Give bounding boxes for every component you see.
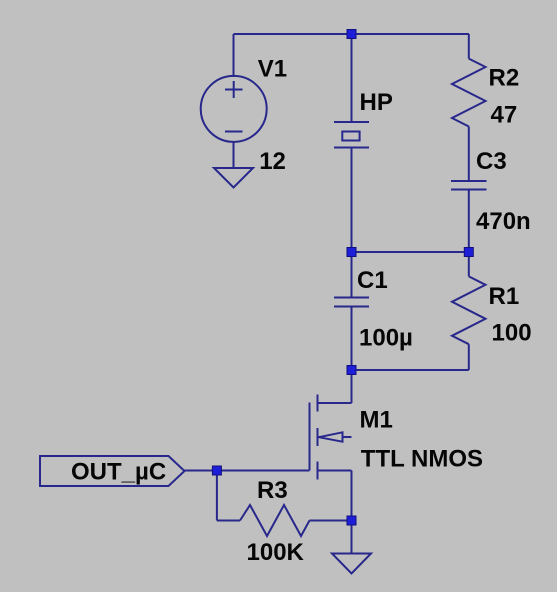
resistor R2: [452, 59, 486, 127]
wire HP bottom to node: [351, 148, 353, 253]
svg-text:HP: HP: [360, 89, 393, 116]
V1 plus sign: [225, 89, 243, 91]
svg-text:R3: R3: [257, 477, 288, 504]
svg-text:OUT_µC: OUT_µC: [71, 459, 166, 486]
svg-text:C1: C1: [357, 267, 388, 294]
svg-text:12: 12: [259, 148, 286, 175]
wire C1 top lead: [351, 252, 353, 298]
junction node source/R3/ground: [347, 516, 356, 525]
junction node HP/C1/mid rail: [347, 248, 356, 257]
svg-text:R2: R2: [489, 64, 520, 91]
wire V1 top lead: [233, 34, 235, 77]
wire top rail from V1 to R2: [234, 33, 470, 35]
voltage source V1 circle: [201, 76, 267, 142]
svg-text:100µ: 100µ: [359, 324, 413, 351]
wire flag to gate: [185, 470, 310, 472]
net flag OUT_µC outline: [40, 456, 185, 486]
wire R3 left lead: [217, 520, 240, 522]
speaker HP symbol: [334, 121, 369, 123]
transistor M1 NMOS: [310, 395, 352, 480]
svg-text:100K: 100K: [247, 539, 305, 566]
wire source: [351, 471, 353, 521]
svg-text:C3: C3: [476, 148, 507, 175]
svg-text:TTL NMOS: TTL NMOS: [361, 445, 483, 472]
wire C1 bottom lead: [351, 307, 353, 371]
svg-text:47: 47: [491, 102, 518, 129]
svg-text:V1: V1: [258, 56, 287, 83]
junction node C3/R1: [464, 248, 473, 257]
wire V1 bottom lead to ground: [233, 141, 235, 168]
resistor R3: [240, 505, 310, 536]
wire R3 right lead: [310, 520, 352, 522]
wire R1 top lead: [468, 252, 470, 276]
wire gate node down: [216, 471, 218, 521]
wire drain: [351, 370, 353, 403]
junction node gate/flag/R3: [212, 466, 221, 475]
wire bottom rail to drain node: [352, 369, 469, 371]
wire R1 bottom lead: [468, 344, 470, 370]
resistor R1: [452, 276, 486, 344]
wire HP top branch: [351, 34, 353, 122]
ground under M1 source: [332, 554, 371, 574]
wire C3 to node: [468, 190, 470, 253]
ground under V1: [214, 168, 253, 188]
wire mid rail node to R1: [352, 251, 469, 253]
svg-text:100: 100: [492, 320, 532, 347]
junction node top rail: [347, 30, 356, 39]
capacitor C1: [334, 297, 369, 299]
V1 minus sign: [225, 131, 243, 133]
svg-text:M1: M1: [360, 406, 393, 433]
wire source node to ground: [351, 521, 353, 554]
wire R2 top lead: [468, 34, 470, 59]
svg-text:R1: R1: [489, 283, 520, 310]
junction node C1/drain: [347, 366, 356, 375]
wire R2 to C3: [468, 127, 470, 182]
capacitor C3: [451, 180, 487, 182]
svg-text:470n: 470n: [476, 208, 531, 235]
